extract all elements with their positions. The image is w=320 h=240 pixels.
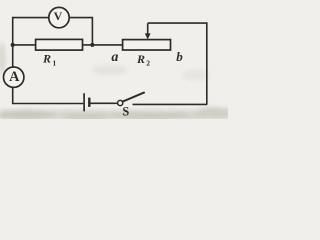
label R2 <box>136 52 150 68</box>
label R1 <box>42 52 57 68</box>
svg-text:R: R <box>136 52 145 66</box>
svg-text:1: 1 <box>53 58 57 67</box>
svg-text:S: S <box>122 105 129 119</box>
wire left vertical upper <box>12 17 14 68</box>
label S <box>122 105 129 119</box>
svg-text:V: V <box>54 9 63 23</box>
svg-text:a: a <box>111 50 118 65</box>
label a <box>111 50 118 65</box>
voltmeter V <box>49 7 69 27</box>
wire R1 to R2 <box>83 44 123 46</box>
wire left vertical lower <box>12 87 14 104</box>
rheostat R2 body <box>123 40 171 50</box>
wire main horizontal left to R1 <box>13 44 36 46</box>
wire voltmeter drop vertical <box>91 17 93 45</box>
resistor R1 <box>36 39 83 50</box>
node junction right of R1 <box>90 43 94 47</box>
rheostat wiper arrow <box>145 23 151 39</box>
switch S <box>118 93 144 106</box>
wire bottom-left horizontal <box>13 103 84 105</box>
svg-text:2: 2 <box>146 59 150 68</box>
wire right vertical <box>206 22 208 104</box>
wire top-left horizontal <box>12 17 49 19</box>
node junction left <box>11 43 15 47</box>
label b <box>176 49 183 64</box>
svg-text:b: b <box>176 49 183 64</box>
svg-text:A: A <box>9 69 20 85</box>
svg-text:R: R <box>42 52 51 66</box>
battery cell short plate <box>88 98 90 107</box>
wire voltmeter to right corner <box>69 17 92 19</box>
wire bottom-right horizontal <box>133 103 208 105</box>
wire battery to switch <box>90 102 118 104</box>
battery cell long plate <box>83 93 85 111</box>
ammeter A <box>4 67 24 87</box>
wire top-right horizontal <box>148 22 207 24</box>
